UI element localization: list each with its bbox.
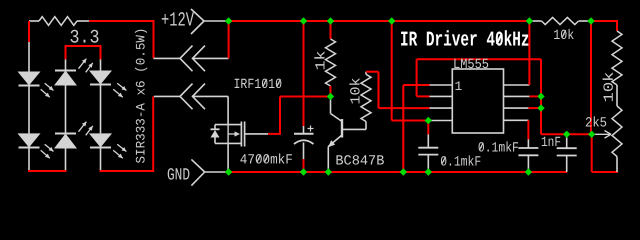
connector X1-2 right lead: [192, 95, 228, 97]
resistor R7 3.3 body: [39, 17, 77, 26]
svg-text:4700mkF: 4700mkF: [240, 153, 293, 169]
transistor Q1 IRF1010 drain/source frame: [215, 124, 242, 126]
transistor Q1 source lead: [227, 143, 229, 172]
LED D2 (SIR333-A): [18, 133, 41, 147]
svg-text:1: 1: [454, 79, 462, 94]
connector X1-2 (return) left lead: [154, 95, 180, 97]
transistor Q1 substrate arrow: [228, 133, 235, 135]
IC U1 LM555 box: [452, 69, 503, 133]
junction GND rail / C2: [425, 168, 432, 175]
capacitor C2 bottom lead: [427, 155, 429, 172]
wire C1 bottom to GND rail: [303, 159, 305, 172]
transistor Q2 collector lead: [330, 97, 332, 114]
wire 3.3 resistor to top connector: [89, 20, 155, 22]
capacitor C4 bottom lead: [566, 156, 568, 173]
junction rail / reset wire: [388, 17, 395, 24]
svg-text:LM555: LM555: [453, 57, 489, 73]
IC U1 pin 3R: [504, 107, 529, 109]
transistor Q1 body diode: [214, 125, 216, 130]
wire top connector left drop: [153, 20, 155, 58]
junction GND rail / 555 pin 1L: [400, 168, 407, 175]
wire 555 reset pin 4L: [392, 120, 429, 122]
IC U1 pin 4L: [428, 120, 452, 122]
connector X1-1 right lead: [193, 57, 229, 59]
resistor R1 1k body: [326, 39, 336, 86]
LED D5 (SIR333-A): [89, 71, 112, 85]
svg-text:BC847B: BC847B: [335, 154, 384, 170]
wire timing node horizontal: [541, 133, 592, 135]
capacitor C1 bottom lead: [303, 143, 305, 160]
LED D2 emission arrows: [45, 144, 54, 151]
junction collector node: [327, 93, 334, 100]
capacitor C2 plates: [418, 147, 438, 149]
transistor Q2 base bar: [341, 119, 343, 138]
wire connector X1-2 to Q1 drain: [227, 96, 229, 124]
IC U1 pin 1L: [430, 84, 453, 86]
LED D5 emission arrows: [117, 83, 126, 90]
wire LED col2 top drop: [65, 46, 67, 59]
junction +12V arrow / rail: [225, 17, 232, 24]
wire GND bottom rail: [229, 171, 567, 173]
svg-text:1k: 1k: [313, 50, 329, 70]
junction GND rail / C3: [525, 168, 532, 175]
svg-text:SIR333-A x6 (0.5W): SIR333-A x6 (0.5W): [133, 27, 148, 163]
resistor R7 3.3 right lead: [77, 20, 89, 22]
resistor R2 top lead: [365, 72, 367, 75]
junction 555 pin4L / C2: [425, 117, 432, 124]
svg-text:0.1mkF: 0.1mkF: [478, 141, 519, 157]
+12V supply arrow: [191, 9, 204, 21]
connector X1-1 (+12V feed) left lead: [154, 57, 181, 59]
GND supply arrow: [191, 159, 204, 172]
resistor R3 10k body: [542, 17, 579, 24]
IC U1 pin 3L: [430, 107, 453, 109]
LED D1 (SIR333-A): [18, 72, 41, 86]
LED D3 (SIR333-A, points up): [54, 71, 77, 86]
IC U1 pin 4R: [504, 119, 529, 121]
IC U1 pin 2R: [504, 95, 530, 97]
wire 3.3 resistor to LED column 1: [28, 21, 30, 42]
capacitor C4 plates: [557, 147, 577, 149]
wire wiper node down to trimmer bottom: [591, 134, 593, 172]
LED D3 emission arrows: [79, 59, 87, 69]
wire 555 pin 1L to GND rail: [402, 85, 404, 172]
connector X1-1 chevrons: [180, 46, 193, 72]
junction rail / C1: [300, 17, 307, 24]
wire Q1 gate to R1 collector node: [268, 133, 281, 135]
junction 555 pin 2R: [537, 93, 544, 100]
trimmer R5 bottom lead: [616, 157, 618, 173]
junction rail / R1: [327, 17, 334, 24]
wire R1 bottom to collector node: [330, 86, 332, 97]
svg-text:GND: GND: [167, 167, 190, 186]
wire LED D3 to D4: [65, 86, 67, 134]
capacitor C3 plates: [518, 147, 538, 149]
svg-text:+12V: +12V: [161, 10, 194, 33]
junction rail / 555 VCC: [526, 17, 533, 24]
wire +12V top rail: [229, 20, 530, 22]
wire 555 pin 2L up-and-over: [417, 95, 430, 97]
wire LED string return riser: [152, 96, 154, 172]
capacitor C1 plus sign: [308, 128, 314, 130]
LED D1 emission arrows: [45, 83, 54, 90]
resistor R7 3.3 left lead: [29, 20, 39, 22]
LED D6 bottom lead: [100, 148, 102, 172]
wire LED col3 bottom to right: [100, 170, 154, 172]
resistor R4 10k body: [612, 31, 622, 85]
junction GND arrow / Q1 source: [225, 168, 232, 175]
wire LED D5 to D6: [100, 85, 102, 134]
junction timing wire / C4: [563, 131, 570, 138]
svg-text:2k5: 2k5: [585, 116, 607, 132]
transistor Q1 gate bar: [244, 122, 246, 147]
LED D5 top lead: [100, 59, 102, 70]
transistor Q1 gate lead: [245, 133, 268, 135]
trimmer R5 2k5 body: [612, 106, 622, 157]
trimmer R5 wiper arrow: [592, 133, 611, 135]
LED D6 emission arrows: [117, 144, 126, 151]
wire +12V rail to R1: [330, 21, 332, 39]
LED D4 (SIR333-A, points up): [54, 134, 77, 149]
resistor R3 right lead: [579, 20, 591, 22]
svg-text:10k: 10k: [348, 77, 364, 104]
LED D4 emission arrows: [79, 122, 87, 132]
LED D3 top lead: [65, 59, 67, 70]
capacitor C2 top lead: [427, 134, 429, 147]
resistor R3 10k lead from rail: [529, 20, 541, 22]
LED D6 (SIR333-A): [89, 133, 112, 147]
svg-text:1nF: 1nF: [541, 135, 561, 151]
wire 555 pin 3R stub: [528, 107, 541, 109]
svg-text:10k: 10k: [602, 71, 618, 102]
connector X1-2 chevrons: [180, 84, 193, 110]
wire LED col1 bottom to col2 bottom: [28, 170, 67, 172]
junction wiper node: [588, 131, 595, 138]
junction GND rail / C1: [300, 168, 307, 175]
wire +12V drop to connector X1-1: [228, 21, 230, 58]
LED D1 top lead: [28, 42, 30, 72]
wire +12V rail right segment to R4: [591, 20, 618, 22]
capacitor C3 bottom lead: [527, 155, 529, 172]
wire R4 to R5: [616, 85, 618, 106]
LED D4 bottom lead: [65, 149, 67, 172]
svg-text:0.1mkF: 0.1mkF: [440, 155, 481, 171]
capacitor C3 top lead: [527, 139, 529, 148]
junction 555 pin 3R: [537, 104, 544, 111]
IC U1 pin 2L: [430, 95, 453, 97]
svg-text:IRF1010: IRF1010: [233, 77, 282, 93]
transistor Q2 base lead: [342, 128, 366, 130]
wire +12V rail to 555 VCC pin 1R: [528, 21, 530, 85]
wire LED col2 top to col3 top: [65, 45, 102, 47]
svg-text:10k: 10k: [553, 28, 574, 44]
wire LED col3 top drop: [100, 46, 102, 59]
wire 555 pin 4L to C2: [427, 121, 429, 135]
svg-text:IR Driver 40kHz: IR Driver 40kHz: [400, 30, 530, 53]
wire +12V rail to 555 reset pin: [391, 21, 393, 121]
capacitor C1 4700mkF top lead: [303, 126, 305, 134]
wire +12V rail to C1 top: [303, 21, 305, 126]
LED D2 bottom lead: [28, 148, 30, 172]
resistor R2 10k body: [361, 74, 371, 121]
IC U1 pin 1R: [504, 84, 530, 86]
junction rail / R3-R4 node: [587, 17, 594, 24]
transistor Q1 channel bar: [240, 122, 242, 147]
resistor R2 bottom lead: [365, 122, 367, 130]
transistor Q2 emitter lead: [328, 135, 342, 147]
wire LED D1 to D2: [28, 86, 30, 134]
junction GND rail / Q2 emitter: [325, 168, 332, 175]
capacitor C1 negative plate: [294, 140, 314, 144]
wire 555 pin 2R stub: [529, 95, 541, 97]
wire R2 top to 555 pin 3L: [366, 71, 379, 73]
wire R3/R4 node to wiper: [590, 21, 592, 134]
capacitor C1 positive plate: [294, 133, 314, 135]
wire 555 pin 4R to C3: [527, 120, 529, 139]
capacitor C4 1nF top lead: [566, 134, 568, 148]
